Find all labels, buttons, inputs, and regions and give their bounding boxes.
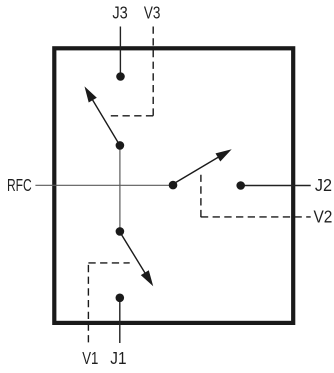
switch body box: [54, 48, 293, 323]
control line V3 horizontal (dashed): [111, 115, 153, 117]
svg-text:V3: V3: [144, 2, 161, 22]
switch arm to J2 (arrow): [172, 149, 232, 185]
wire J1 stub: [119, 298, 121, 343]
pole node top: [116, 141, 125, 150]
port node J2: [236, 181, 245, 190]
control line V3 vertical (dashed): [152, 27, 154, 116]
svg-text:V2: V2: [314, 206, 333, 226]
svg-text:J2: J2: [315, 175, 332, 195]
pole node right: [169, 181, 178, 190]
wire RFC line: [35, 184, 173, 186]
control line V2 vertical (dashed): [200, 175, 202, 217]
control line V2 horizontal (dashed): [201, 216, 311, 218]
port node J3: [116, 72, 125, 81]
switch arm to J1 (arrow): [120, 232, 153, 286]
control line V1 horizontal (dashed): [88, 262, 129, 264]
wire J3 stub: [119, 27, 121, 77]
control line V1 vertical (dashed): [87, 263, 89, 343]
svg-text:RFC: RFC: [7, 175, 32, 195]
svg-text:J3: J3: [112, 2, 127, 22]
port node J1: [116, 294, 125, 303]
wire vertical bus between poles: [119, 145, 121, 231]
svg-text:J1: J1: [110, 348, 126, 368]
svg-text:V1: V1: [82, 348, 98, 368]
wire J2 stub: [241, 185, 311, 187]
pole node bottom: [116, 227, 125, 236]
switch arm to J3 (arrow): [85, 86, 120, 145]
